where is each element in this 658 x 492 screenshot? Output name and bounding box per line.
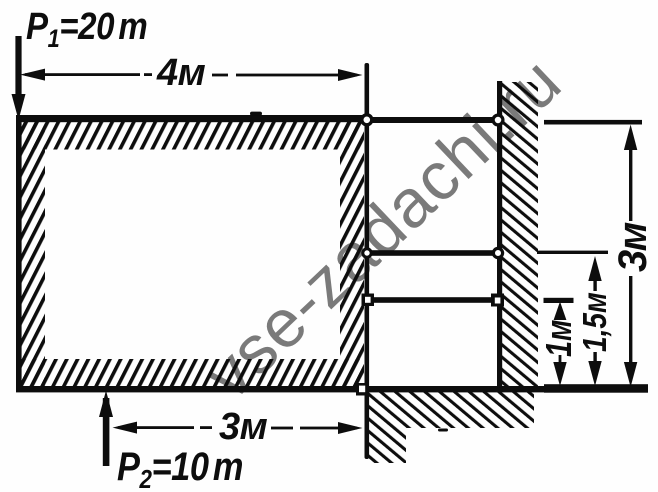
svg-text:1,5м: 1,5м [577,292,614,352]
link bar middle [367,250,498,256]
svg-text:3м: 3м [219,406,268,448]
svg-text:1м: 1м [538,320,579,357]
dimension 4м line [20,69,363,81]
svg-text:P1=20т: P1=20т [26,5,147,52]
extension line 1,5м [537,251,608,254]
hinge at column base (square) [356,383,369,396]
hinge middle link right [493,248,502,257]
extension line top right [544,120,642,125]
frame top chord line [16,115,369,122]
svg-text:3м: 3м [611,222,655,272]
bottom chord line [16,386,644,392]
hinge at column top [362,115,372,125]
dimension 3м right [624,125,637,388]
frame top member hatch [21,121,364,150]
right column line [365,63,370,459]
force P1 arrow [12,36,26,120]
link bar top [369,117,498,123]
frame bottom member hatch [21,359,364,386]
hinge at wall top link [493,115,503,125]
bottom extension line right [544,384,648,393]
frame left member hatch [21,121,45,386]
stray ink speck on beam [250,112,262,116]
dimension 1,5м [588,256,601,386]
hinge lower link right (square) [491,294,504,307]
stray ink dash under beam [438,429,448,432]
svg-text:P2=10т: P2=10т [117,444,243,492]
hinge lower link left (square) [362,294,375,307]
dimension 1м [553,302,566,387]
dimension 3м bottom line [113,422,363,434]
hinge middle link left [363,249,371,257]
link bar lower [367,297,498,303]
ground hatch below beam [369,392,534,463]
wall hatch [502,82,538,388]
wall edge line [497,81,502,392]
frame right member hatch [340,121,364,386]
frame left chord line [16,115,22,392]
force P2 arrow [99,391,113,467]
svg-text:4м: 4м [156,52,206,94]
extension bar 1м [544,298,574,303]
